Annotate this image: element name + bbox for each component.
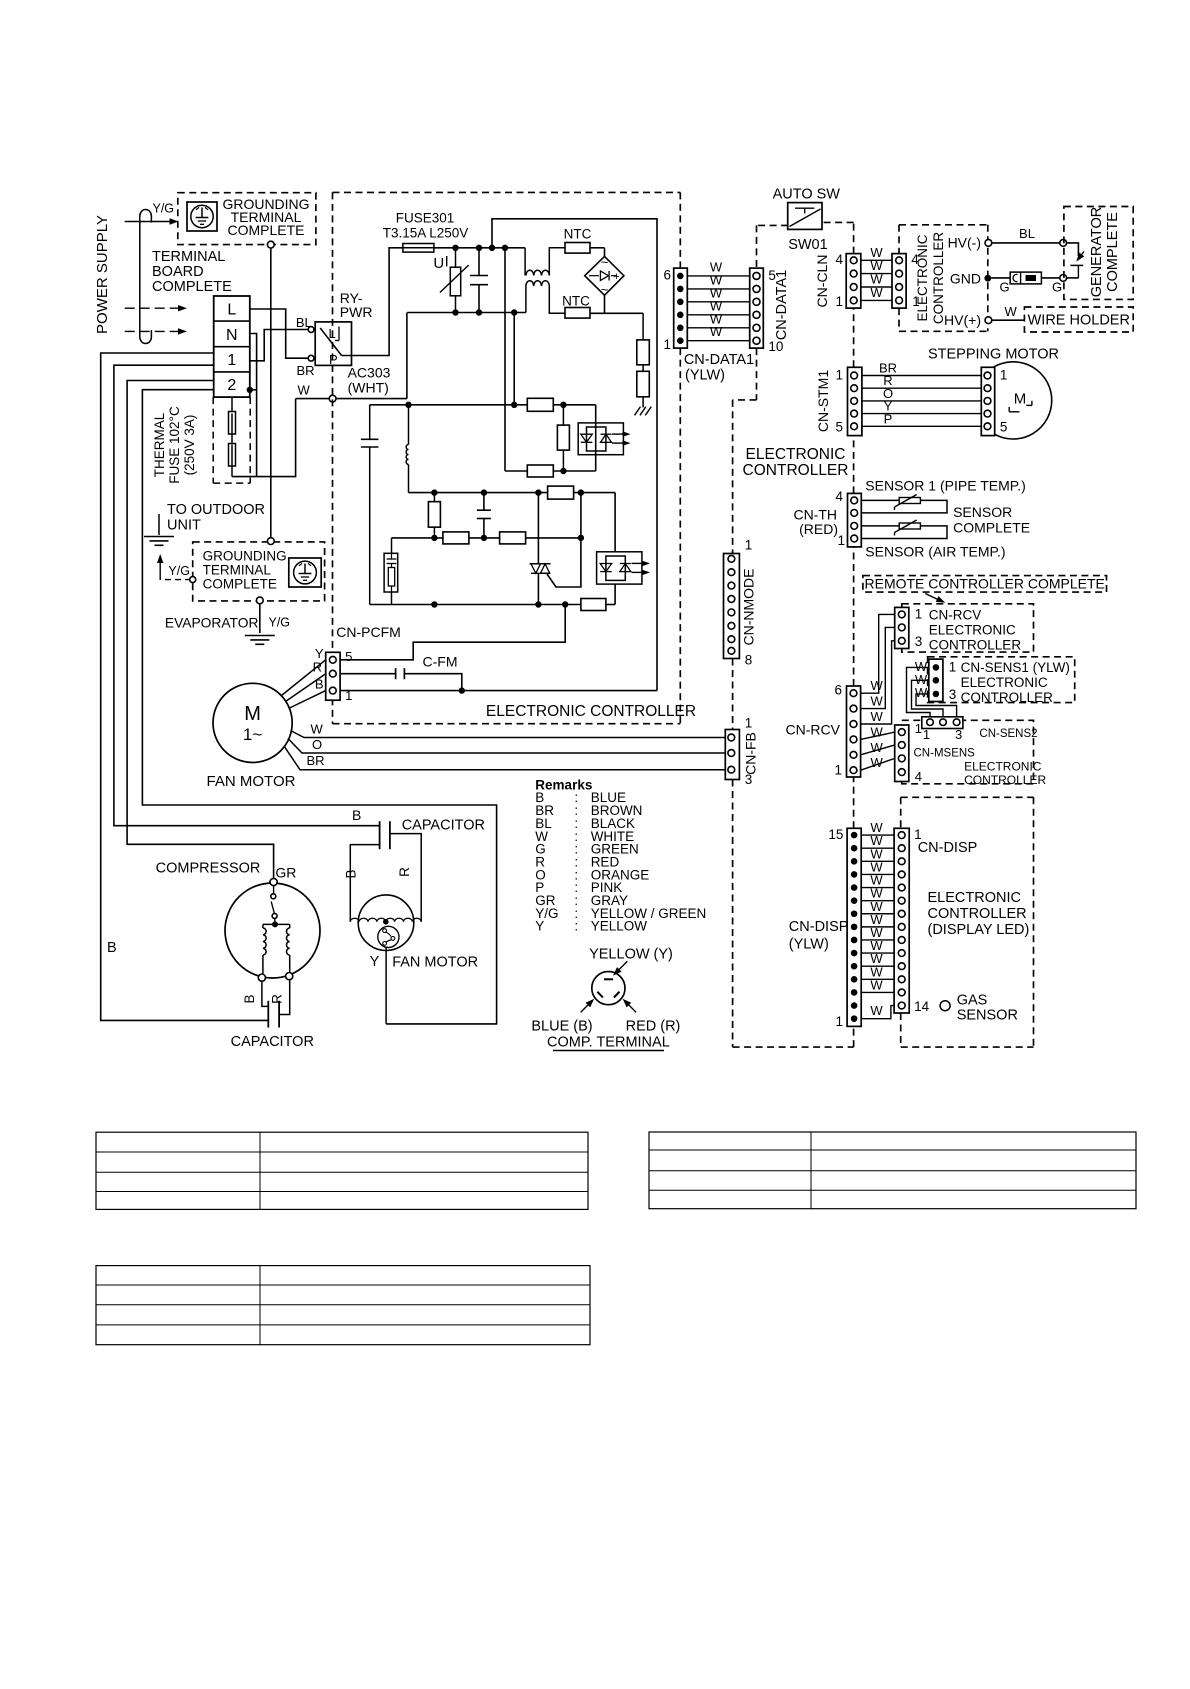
svg-text:~: ~ (601, 255, 609, 270)
table parts list 1 (96, 1132, 588, 1209)
wire zero-cross feed (504, 248, 506, 471)
resistor NTC upper (565, 243, 590, 254)
svg-text:1: 1 (837, 533, 845, 548)
connector CN-DISP display (894, 828, 909, 1013)
svg-text:R: R (270, 994, 285, 1004)
svg-text:UNIT: UNIT (167, 518, 201, 534)
svg-text:(YLW): (YLW) (789, 937, 829, 953)
resistor midrail (548, 486, 574, 499)
relay RY-PWR (315, 322, 351, 366)
svg-text:Y/G: Y/G (269, 616, 291, 630)
wire relay P to FUSE301 (352, 248, 403, 356)
svg-text:ELECTRONIC: ELECTRONIC (961, 675, 1048, 690)
svg-text:1: 1 (745, 538, 753, 553)
arrow Y/G evaporator (159, 557, 161, 581)
svg-text:B: B (107, 940, 117, 956)
svg-text:GAS: GAS (957, 993, 988, 1009)
svg-text:HV(+): HV(+) (944, 312, 981, 328)
svg-text:W: W (870, 285, 883, 300)
terminal board block L N 1 2 (214, 296, 250, 397)
junction cap top (476, 245, 482, 251)
compressor B terminal (258, 974, 265, 981)
wire top rail L (434, 247, 525, 249)
wire bypass up and over (492, 219, 657, 691)
svg-text:CONTROLLER: CONTROLLER (743, 462, 849, 479)
junction feed rail2 (511, 309, 517, 315)
fuse FUSE301 (403, 244, 434, 253)
svg-text:CN-SENS2: CN-SENS2 (979, 728, 1037, 740)
svg-text:CAPACITOR: CAPACITOR (231, 1034, 314, 1050)
wire power supply line N arrow (125, 330, 180, 332)
svg-text:M: M (1014, 391, 1027, 408)
capacitor C-FM (395, 668, 397, 679)
resistor divider lower (642, 365, 644, 372)
svg-text:CN-DISP: CN-DISP (918, 840, 978, 856)
svg-text:TO OUTDOOR: TO OUTDOOR (167, 502, 265, 518)
svg-text:G: G (1000, 280, 1010, 295)
svg-text:NTC: NTC (562, 294, 590, 309)
svg-text:HV(-): HV(-) (948, 235, 981, 251)
thermal fuse F1 (231, 397, 233, 413)
wire rail3 (392, 537, 581, 539)
wires fan motor W O BR to CN-FB (291, 731, 726, 738)
optocoupler PC1 (578, 423, 623, 455)
svg-text:ELECTRONIC: ELECTRONIC (929, 623, 1016, 638)
svg-text:1: 1 (663, 337, 671, 352)
svg-text:FAN MOTOR: FAN MOTOR (207, 773, 296, 790)
svg-text:COMPLETE: COMPLETE (953, 520, 1030, 536)
svg-text:Y/G: Y/G (153, 202, 175, 216)
svg-text:CN-SENS1 (YLW): CN-SENS1 (YLW) (961, 660, 1070, 675)
svg-text:P: P (884, 411, 893, 426)
connector CN-STM1 right (981, 367, 994, 435)
ferrite clamp (1010, 272, 1041, 284)
ground terminal symbol (top) (187, 202, 217, 231)
connector CN-DATA1 plug side (750, 268, 764, 348)
junction midrail c (535, 489, 541, 495)
wire mid rail (409, 492, 616, 494)
choke top winding (524, 248, 526, 276)
junction midrail b (481, 489, 487, 495)
wire power supply earth with arrow (125, 221, 172, 223)
svg-text:THERMAL: THERMAL (152, 412, 167, 477)
svg-text:W: W (915, 685, 928, 700)
power supply cable bundle symbol (140, 210, 152, 344)
svg-text:4: 4 (835, 489, 843, 504)
svg-text:(DISPLAY LED): (DISPLAY LED) (928, 922, 1030, 938)
node grounding2 top (267, 538, 274, 545)
grounding terminal complete box 2 (193, 542, 325, 601)
node generator BL (1060, 240, 1067, 247)
wire CN-DISP last (861, 1006, 894, 1019)
junction terminal 2 tap (247, 387, 253, 393)
choke bottom winding (525, 286, 527, 313)
fusible resistor boxed (391, 538, 393, 553)
wire C-FM R lead (340, 673, 396, 675)
svg-text:5: 5 (345, 649, 352, 664)
svg-text:14: 14 (914, 999, 930, 1014)
junction GND (984, 275, 991, 282)
svg-text:CN-RCV: CN-RCV (929, 608, 982, 623)
compressor R terminal (286, 973, 293, 980)
electronic controller main dashed box (333, 191, 681, 193)
svg-text:SENSOR (AIR TEMP.): SENSOR (AIR TEMP.) (865, 544, 1005, 560)
junction bottom triac (535, 601, 541, 607)
wire rcv6 to remote1 (861, 614, 895, 693)
wire terminal2 to fan motor Y loop (142, 390, 496, 1024)
generator spark gap arrow (1078, 252, 1085, 261)
connector CN-SENS1 (929, 659, 943, 701)
svg-text:W: W (871, 709, 884, 724)
table parts list 3 (96, 1266, 590, 1345)
svg-text:1: 1 (745, 716, 753, 731)
wires CN-DATA1 W (687, 275, 749, 277)
svg-text:BR: BR (307, 753, 325, 768)
svg-text:M: M (244, 703, 261, 725)
display EC dashed box (901, 796, 1034, 798)
evaporator ground symbol (245, 635, 275, 637)
svg-text:1: 1 (227, 352, 236, 369)
svg-text:FUSE301: FUSE301 (396, 211, 455, 226)
connector CN-DISP board (847, 828, 861, 1026)
thermal fuse F2 (231, 434, 233, 445)
svg-text:~: ~ (601, 282, 609, 297)
svg-text:COMPLETE: COMPLETE (227, 222, 304, 238)
svg-text:COMP. TERMINAL: COMP. TERMINAL (547, 1035, 670, 1051)
compressor circle (225, 883, 320, 978)
svg-text:U: U (433, 255, 444, 272)
svg-text:GENERATOR: GENERATOR (1089, 207, 1105, 298)
svg-text:1: 1 (835, 294, 843, 309)
fan2 cap loop (350, 845, 379, 922)
wires CN-CLN W (861, 259, 892, 261)
svg-text:ELECTRONIC CONTROLLER: ELECTRONIC CONTROLLER (486, 703, 696, 720)
CN-SENS1 dashed box (928, 657, 1075, 703)
relay contact BL (308, 327, 314, 333)
junction rail3 b (481, 535, 487, 541)
svg-text:ELECTRONIC: ELECTRONIC (915, 234, 930, 321)
optocoupler PC2 (597, 552, 642, 584)
svg-text:CONTROLLER: CONTROLLER (931, 232, 946, 325)
svg-text:BL: BL (296, 315, 312, 330)
thermistor pipe sensor loop (861, 500, 947, 513)
svg-text:W: W (871, 740, 884, 755)
junction coil top (405, 402, 411, 408)
svg-text:4: 4 (915, 769, 922, 784)
junction midrail d (578, 489, 584, 495)
svg-text:1: 1 (923, 727, 930, 742)
node grounding2 bottom (256, 597, 263, 604)
connector CN-SENS2 (922, 717, 963, 729)
svg-text:(YLW): (YLW) (685, 368, 725, 384)
svg-text:PWR: PWR (340, 304, 373, 320)
resistor bottom right (581, 599, 606, 611)
svg-text:ELECTRONIC: ELECTRONIC (928, 890, 1021, 906)
svg-text:B: B (242, 994, 257, 1003)
svg-text:GR: GR (275, 865, 296, 881)
compressor capacitor (262, 981, 268, 1006)
svg-text:T3.15A L250V: T3.15A L250V (383, 226, 469, 241)
svg-text:COMPRESSOR: COMPRESSOR (156, 861, 261, 877)
resistor rail3 left (443, 532, 469, 544)
fan2 winding (350, 918, 421, 922)
svg-text:CN-DATA1: CN-DATA1 (684, 352, 754, 368)
compressor internal protector (273, 886, 275, 894)
wire B line (340, 690, 657, 692)
svg-text:ELECTRONIC: ELECTRONIC (964, 760, 1042, 774)
wire rail2 (370, 404, 596, 406)
svg-text:W: W (871, 678, 884, 693)
capacitor snubber left (369, 405, 371, 440)
wires sens1 to sens2 (907, 667, 931, 716)
svg-text:1: 1 (1000, 368, 1008, 383)
arrow remote (925, 594, 941, 602)
svg-text::: : (574, 919, 578, 934)
junction cap bottom (476, 309, 482, 315)
svg-text:EVAPORATOR: EVAPORATOR (165, 616, 259, 631)
wires CN-DISP (861, 834, 894, 836)
chassis ground hatch (635, 407, 641, 416)
wires stepping motor (862, 375, 981, 377)
node grounding terminal (top) (267, 241, 274, 248)
svg-text:(250V 3A): (250V 3A) (182, 415, 197, 476)
stepping motor body (995, 362, 1052, 439)
svg-text:P: P (329, 352, 338, 367)
svg-text:L: L (227, 302, 236, 319)
varistor U (455, 248, 457, 267)
svg-text:CN-RCV: CN-RCV (786, 722, 841, 738)
connector CN-RCV remote (895, 607, 909, 648)
junction zerocross top (502, 245, 508, 251)
diode bridge (585, 256, 624, 295)
switch AUTO SW SW01 (788, 203, 822, 230)
connector CN-PCFM (326, 652, 340, 700)
node HV- (985, 240, 992, 247)
svg-text:8: 8 (745, 653, 753, 668)
resistor opto1 parallel (562, 405, 564, 425)
remote controller complete dashed box (863, 576, 1107, 593)
wire rail2 to opto1 (595, 405, 597, 471)
outdoor ground symbol (158, 514, 160, 535)
wire L to relay BR contact (250, 309, 308, 358)
capacitor mid (483, 493, 485, 511)
CN-MSENS dashed box (902, 720, 1034, 784)
svg-text:1: 1 (915, 721, 922, 736)
svg-text:10: 10 (768, 339, 783, 354)
resistor divider upper (642, 313, 644, 340)
svg-text:RED (R): RED (R) (626, 1019, 681, 1035)
svg-text:Y/G: Y/G (168, 564, 190, 578)
remote CN-RCV dashed box (902, 604, 1034, 652)
svg-text:W: W (1005, 304, 1018, 319)
junction bottom b (431, 601, 437, 607)
svg-text:Y: Y (535, 919, 544, 934)
svg-text:SENSOR: SENSOR (953, 504, 1012, 520)
svg-text:6: 6 (834, 683, 842, 698)
wire N to fuse line (250, 334, 257, 477)
wire W up to lower rail (406, 313, 408, 399)
svg-text:CN-FB: CN-FB (743, 732, 759, 775)
svg-text:3: 3 (949, 687, 957, 702)
controller corridor dashed border (756, 225, 758, 268)
svg-text:W: W (710, 324, 723, 339)
svg-text:1: 1 (835, 1014, 843, 1029)
svg-text:BR: BR (297, 363, 315, 378)
wires fan motor to CN-PCFM (282, 660, 326, 696)
svg-text:SENSOR 1 (PIPE TEMP.): SENSOR 1 (PIPE TEMP.) (865, 478, 1026, 494)
node W AC303 (296, 398, 330, 400)
wire GND to ferrite (991, 277, 1010, 279)
svg-text:G: G (1052, 280, 1062, 295)
svg-text:FAN MOTOR: FAN MOTOR (392, 955, 478, 971)
svg-text:AUTO SW: AUTO SW (773, 187, 841, 203)
wire midrail to opto2 (614, 493, 616, 552)
svg-text:COMPLETE: COMPLETE (152, 279, 232, 295)
comp terminal circle (592, 972, 625, 1005)
svg-text:B: B (344, 869, 359, 878)
wire line471 (505, 470, 596, 472)
svg-text:(RED): (RED) (799, 521, 838, 537)
wire BL generator (992, 242, 1060, 244)
svg-text:COMPLETE: COMPLETE (1105, 212, 1121, 292)
connector CN-CLN right (892, 254, 906, 309)
svg-text:W: W (870, 1003, 883, 1018)
grounding terminal complete box (top) (178, 193, 316, 245)
resistor rail3 right (500, 532, 526, 544)
svg-text:NTC: NTC (564, 227, 592, 242)
arrow red (625, 1001, 637, 1013)
wire terminal1 to fan capacitor (B) (114, 365, 380, 826)
wire pcfm pin5 riser (340, 605, 565, 660)
wire W to holder (992, 319, 1025, 321)
wire lower rail N (407, 312, 526, 314)
fan motor 2 circle (358, 895, 414, 951)
svg-text:SW01: SW01 (788, 237, 828, 253)
connector CN-RCV main (847, 686, 861, 777)
svg-text:CN-DISP: CN-DISP (789, 919, 849, 935)
svg-text:CAPACITOR: CAPACITOR (402, 818, 485, 834)
wire rcv1 to msens3 (861, 758, 895, 770)
junction rail3 gate (578, 535, 584, 541)
svg-text:TERMINAL: TERMINAL (203, 563, 272, 578)
wire rcv2 to msens2 (861, 745, 895, 755)
compressor GR terminal (270, 878, 277, 885)
wire rcv4 to remote3 (861, 641, 895, 724)
thermal fuse dashed outline (212, 397, 214, 483)
svg-text:(WHT): (WHT) (348, 380, 389, 396)
svg-text:GND: GND (950, 271, 981, 287)
junction varistor bottom (452, 309, 458, 315)
generator complete dashed box (1064, 207, 1133, 300)
wire rcv3 to msens1 (861, 732, 895, 739)
svg-text:O: O (312, 737, 322, 752)
junction varistor top (452, 245, 458, 251)
svg-text:STEPPING MOTOR: STEPPING MOTOR (928, 347, 1059, 363)
svg-text:CONTROLLER: CONTROLLER (929, 638, 1022, 653)
svg-text:4: 4 (835, 252, 843, 267)
svg-text:1: 1 (949, 660, 957, 675)
relay contact BR (308, 355, 314, 361)
svg-text:CN-STM1: CN-STM1 (815, 370, 831, 432)
svg-text:CN-PCFM: CN-PCFM (336, 624, 401, 640)
thermistor air sensor loop (861, 526, 947, 539)
wire ferrite to G (1041, 277, 1059, 279)
wire evaporator ground (259, 604, 261, 633)
wire rcv5 to remote2 (861, 627, 895, 708)
inductor filter (408, 405, 410, 445)
fan2 capacitor (379, 821, 381, 849)
svg-text:GROUNDING: GROUNDING (203, 549, 287, 564)
compressor windings (263, 923, 290, 925)
svg-text:BOARD: BOARD (152, 264, 204, 280)
svg-text:REMOTE CONTROLLER COMPLETE: REMOTE CONTROLLER COMPLETE (865, 575, 1105, 591)
svg-text:W: W (871, 694, 884, 709)
svg-text:AC303: AC303 (348, 365, 391, 381)
junction rail3 a (431, 535, 437, 541)
table parts list 2 (649, 1132, 1136, 1209)
wire bottom rail (370, 604, 581, 606)
svg-text:YELLOW (Y): YELLOW (Y) (589, 947, 673, 963)
svg-text:5: 5 (835, 420, 843, 435)
wire holder dashed box (1024, 307, 1133, 332)
wire gate node to midrail (580, 493, 582, 538)
svg-text:Y: Y (370, 954, 380, 970)
wire terminal2 to compressor GR (127, 381, 274, 879)
connector CN-DATA1 board side (674, 268, 688, 348)
svg-text:CONTROLLER: CONTROLLER (961, 690, 1054, 705)
connector CN-CLN left (846, 254, 861, 309)
svg-text:15: 15 (828, 827, 843, 842)
svg-text:CN-NMODE: CN-NMODE (741, 569, 757, 646)
resistor line471 (527, 465, 553, 477)
triac (537, 493, 539, 564)
svg-text:2: 2 (227, 377, 236, 394)
gas sensor circle (940, 1001, 950, 1011)
arrow blue (581, 1001, 593, 1013)
wire BL contact to terminal 1 (250, 330, 308, 361)
fan2 protector (378, 926, 399, 947)
svg-text:3: 3 (915, 634, 923, 649)
resistor vertical left (433, 493, 435, 502)
junction rail2 feed (511, 402, 517, 408)
svg-text:B: B (352, 807, 361, 823)
ground terminal symbol 2 (289, 558, 321, 587)
svg-text:CONTROLLER: CONTROLLER (964, 773, 1046, 787)
svg-text:C-FM: C-FM (423, 654, 458, 670)
arrow yellow (615, 961, 628, 973)
junction rail2 right (560, 402, 566, 408)
fan motor M1 (213, 683, 292, 762)
svg-text:N: N (226, 327, 238, 344)
svg-text:SENSOR: SENSOR (957, 1008, 1018, 1024)
svg-text:FUSE 102°C: FUSE 102°C (167, 406, 182, 484)
connector CN-TH (848, 493, 862, 547)
svg-text:POWER SUPPLY: POWER SUPPLY (94, 215, 111, 334)
wire fan2 Y (385, 948, 387, 1024)
connector CN-STM1 left (848, 367, 862, 435)
connector CN-NMODE (724, 554, 740, 659)
svg-text:WIRE HOLDER: WIRE HOLDER (1028, 313, 1130, 329)
junction bottom pcfm (562, 601, 568, 607)
svg-text:W: W (298, 383, 311, 398)
svg-text:BL: BL (1019, 226, 1035, 241)
svg-text:5: 5 (1000, 420, 1008, 435)
svg-text:COMPLETE: COMPLETE (203, 577, 277, 592)
wire power supply line L arrow (125, 307, 180, 309)
junction C-FM B (459, 687, 465, 693)
resistor rail2 (527, 398, 553, 411)
svg-text:BLUE (B): BLUE (B) (531, 1019, 592, 1035)
